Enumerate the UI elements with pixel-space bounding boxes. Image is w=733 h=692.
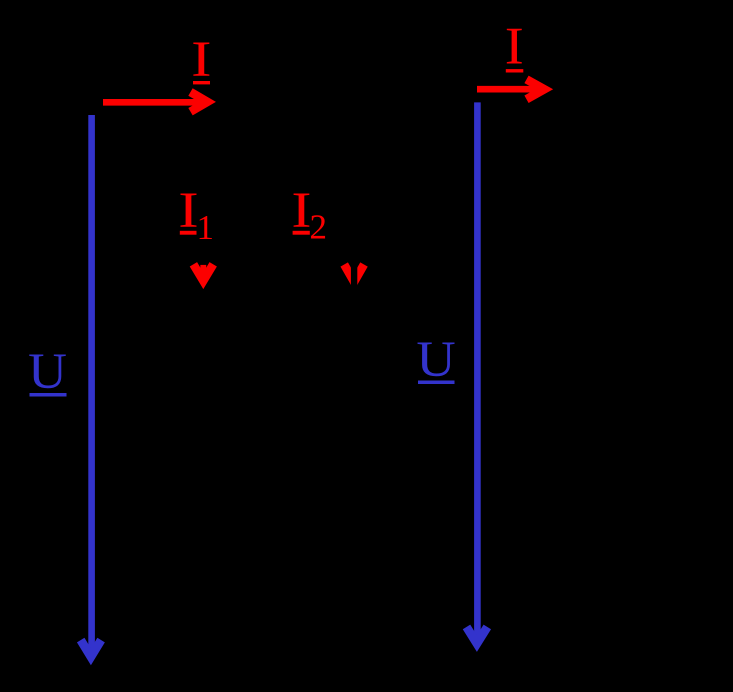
svg-text:I: I (505, 18, 524, 76)
svg-text:U: U (28, 344, 67, 400)
svg-text:1: 1 (197, 208, 215, 247)
svg-text:I: I (191, 32, 211, 88)
svg-text:U: U (416, 332, 455, 388)
svg-text:2: 2 (309, 208, 327, 247)
